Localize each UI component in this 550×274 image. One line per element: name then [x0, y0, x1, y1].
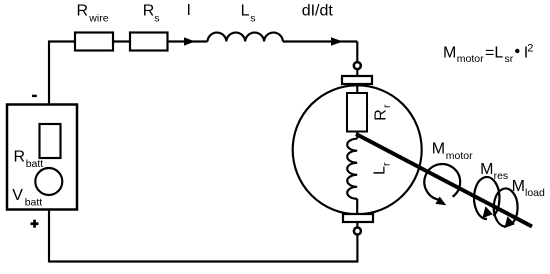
wire between resistors [113, 40, 130, 42]
torque loop M_motor [424, 164, 460, 200]
svg-text:2: 2 [527, 43, 533, 55]
wire battery bottom to bottom rail [48, 210, 50, 263]
svg-text:M: M [512, 178, 525, 195]
inductor L_s [208, 33, 283, 42]
wire corner down to top terminal [356, 42, 358, 62]
svg-text:r: r [380, 162, 392, 166]
resistor R_wire [75, 33, 113, 51]
svg-text:V: V [12, 187, 23, 204]
bottom brush [343, 214, 373, 222]
svg-text:M: M [480, 161, 493, 178]
svg-text:dI/dt: dI/dt [302, 2, 334, 19]
motor stator circle [293, 85, 422, 214]
wire battery top to top rail [48, 42, 50, 105]
bottom rail wire [49, 260, 358, 262]
plus terminal label [33, 220, 36, 228]
top brush [342, 76, 372, 84]
battery box [7, 105, 77, 210]
svg-text:I: I [187, 2, 191, 19]
inductor L_r rotor coil [347, 139, 357, 199]
svg-text:R: R [373, 109, 390, 121]
svg-text:res: res [494, 170, 509, 182]
svg-text:sr: sr [505, 53, 514, 65]
wire brush to R_r [356, 84, 358, 93]
svg-text:load: load [525, 187, 545, 199]
resistor R_s [130, 33, 168, 51]
top terminal node [354, 62, 361, 69]
resistor R_r [347, 93, 367, 132]
svg-text:R: R [14, 149, 26, 166]
svg-text:M: M [432, 140, 445, 157]
wire R_r to rotor coil [356, 132, 358, 139]
svg-text:M: M [443, 44, 456, 61]
source V_batt [35, 168, 62, 195]
wire bottom terminal to bottom rail [356, 235, 358, 261]
current arrow I [184, 37, 195, 46]
minus terminal label [32, 95, 37, 97]
shaft [356, 134, 532, 227]
svg-text:batt: batt [25, 196, 43, 208]
svg-text:batt: batt [26, 158, 44, 170]
wire bottom brush to bottom terminal [356, 222, 358, 227]
svg-text:R: R [77, 2, 89, 19]
svg-text:R: R [143, 2, 155, 19]
svg-text:motor: motor [457, 53, 484, 65]
current arrow dI/dt [331, 37, 343, 46]
wire R_s to inductor [168, 40, 208, 42]
svg-text:wire: wire [88, 13, 108, 25]
wire coil to bottom brush [356, 199, 358, 214]
svg-text:motor: motor [446, 150, 473, 162]
svg-text:r: r [381, 104, 393, 108]
torque loop M_load [494, 189, 518, 227]
svg-text:s: s [250, 13, 255, 25]
resistor R_batt [40, 124, 61, 158]
svg-text:s: s [154, 13, 159, 25]
wire top rail left segment [48, 40, 75, 42]
svg-text:L: L [241, 2, 250, 19]
svg-text:=L: =L [485, 44, 503, 61]
wire inductor to corner [283, 40, 357, 42]
bottom terminal node [354, 228, 361, 235]
svg-text:L: L [372, 166, 389, 175]
torque loop M_res [474, 177, 499, 219]
wire terminal to top brush [356, 70, 358, 76]
